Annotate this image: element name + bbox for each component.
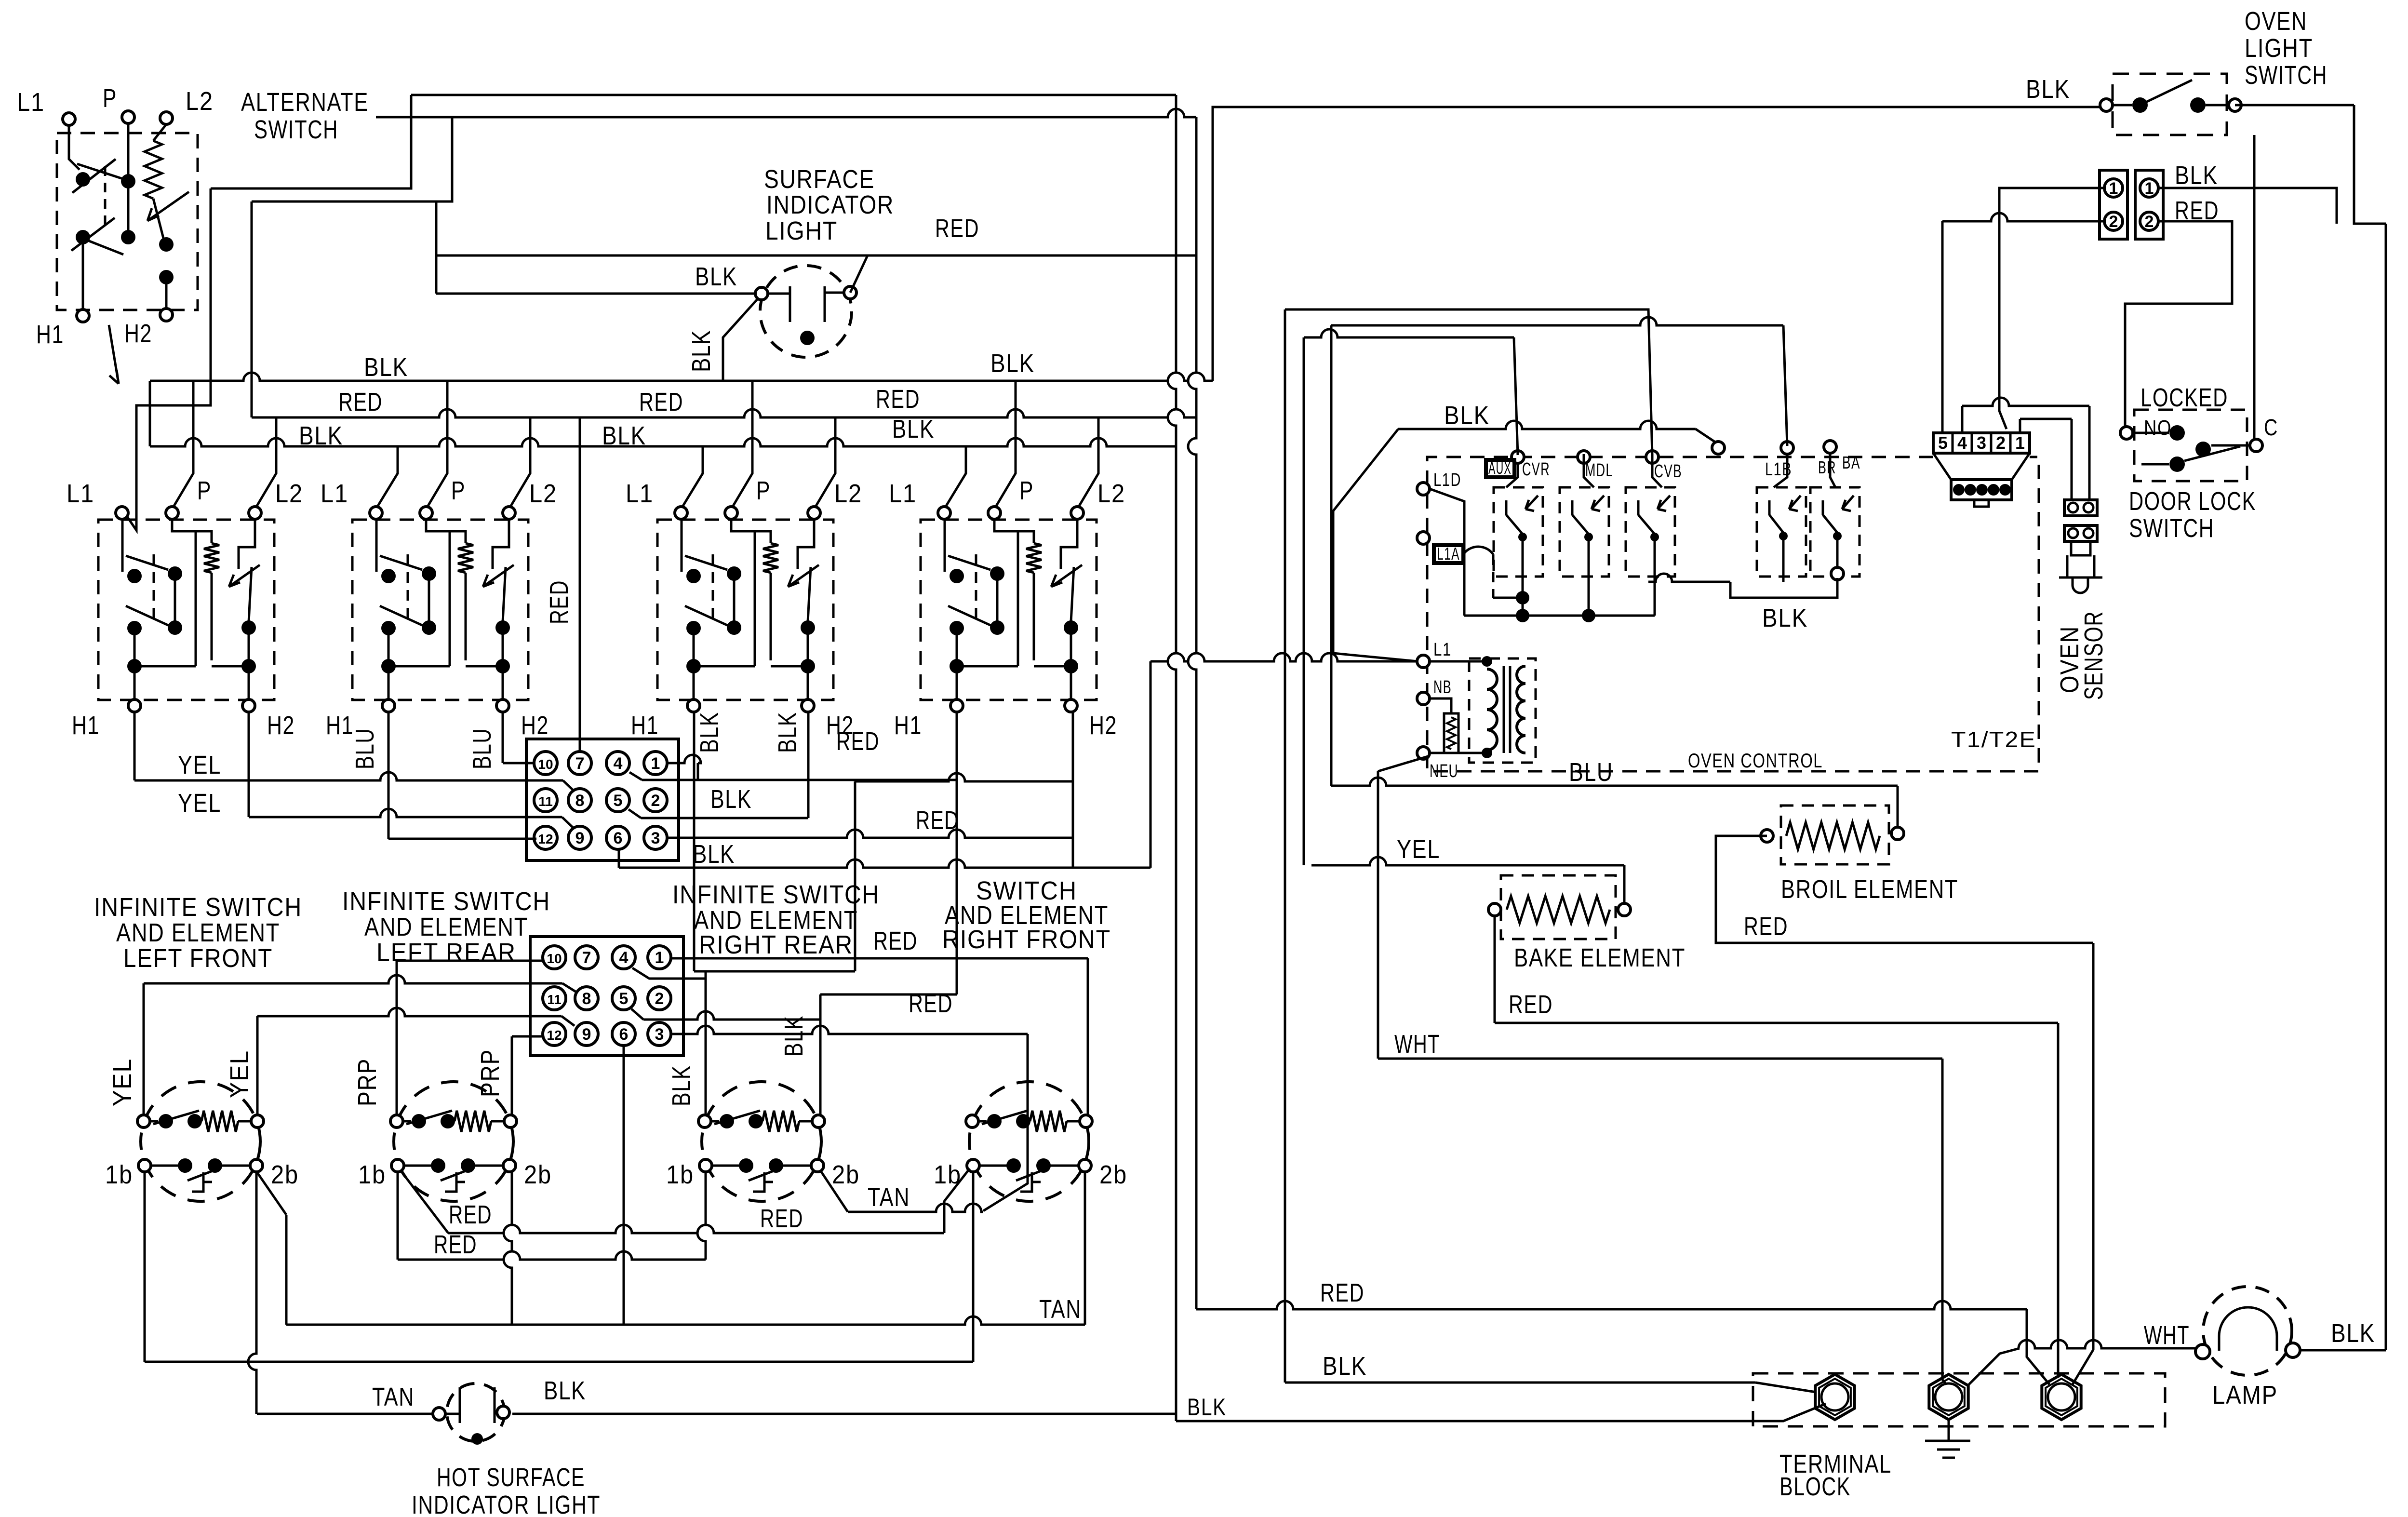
svg-text:BLK: BLK: [1444, 401, 1490, 430]
svg-text:1b: 1b: [358, 1160, 386, 1189]
svg-text:BR: BR: [1818, 457, 1836, 477]
svg-text:BLK: BLK: [602, 421, 646, 450]
svg-text:11: 11: [538, 794, 553, 809]
svg-text:RED: RED: [760, 1204, 803, 1233]
svg-text:SURFACE: SURFACE: [764, 165, 875, 194]
svg-text:BLK: BLK: [687, 330, 716, 372]
svg-text:10: 10: [547, 951, 562, 966]
svg-text:RED: RED: [1509, 990, 1553, 1019]
svg-text:L1: L1: [1433, 640, 1452, 660]
svg-text:SWITCH: SWITCH: [2245, 61, 2328, 90]
svg-text:BLK: BLK: [779, 1015, 808, 1057]
svg-text:L2: L2: [275, 479, 303, 508]
svg-text:AND ELEMENT: AND ELEMENT: [364, 913, 528, 941]
svg-text:2b: 2b: [832, 1160, 860, 1189]
svg-text:BLK: BLK: [892, 415, 935, 443]
svg-text:LIGHT: LIGHT: [2245, 34, 2313, 63]
svg-text:DOOR LOCK: DOOR LOCK: [2129, 487, 2256, 516]
svg-text:H1: H1: [631, 711, 659, 740]
svg-text:TAN: TAN: [372, 1383, 415, 1411]
svg-text:L1: L1: [17, 88, 45, 117]
svg-text:2: 2: [1996, 433, 2006, 453]
svg-text:10: 10: [538, 757, 553, 772]
svg-text:YEL: YEL: [108, 1058, 137, 1106]
svg-text:6: 6: [619, 1025, 629, 1044]
svg-text:8: 8: [575, 792, 585, 810]
svg-text:CVR: CVR: [1522, 459, 1550, 480]
svg-text:LAMP: LAMP: [2212, 1381, 2278, 1410]
svg-text:L2: L2: [529, 479, 557, 508]
svg-text:YEL: YEL: [1397, 835, 1440, 864]
svg-text:3: 3: [651, 829, 660, 847]
svg-text:BLK: BLK: [773, 712, 802, 753]
svg-text:RED: RED: [434, 1230, 477, 1259]
svg-text:BLK: BLK: [2026, 75, 2070, 104]
svg-text:4: 4: [614, 754, 623, 773]
svg-text:RED: RED: [449, 1200, 492, 1229]
svg-text:BLK: BLK: [693, 840, 735, 869]
svg-text:BLK: BLK: [710, 785, 752, 814]
svg-text:RIGHT REAR: RIGHT REAR: [699, 930, 853, 959]
svg-text:BLK: BLK: [1323, 1352, 1367, 1381]
svg-text:H1: H1: [894, 711, 922, 740]
svg-text:5: 5: [1938, 433, 1948, 453]
svg-text:H2: H2: [521, 711, 549, 740]
svg-text:L2: L2: [1097, 479, 1125, 508]
svg-text:RED: RED: [916, 806, 959, 835]
svg-text:RED: RED: [338, 388, 383, 416]
svg-text:7: 7: [575, 754, 585, 773]
svg-text:BLU: BLU: [350, 728, 379, 769]
svg-text:INDICATOR: INDICATOR: [766, 190, 894, 219]
svg-text:OVEN CONTROL: OVEN CONTROL: [1688, 749, 1823, 772]
svg-text:SWITCH: SWITCH: [254, 115, 338, 144]
svg-text:YEL: YEL: [178, 751, 221, 779]
svg-text:RIGHT FRONT: RIGHT FRONT: [942, 925, 1111, 954]
svg-text:P: P: [103, 84, 117, 113]
svg-text:LOCKED: LOCKED: [2140, 383, 2228, 412]
svg-text:BLK: BLK: [1762, 604, 1808, 632]
svg-text:RED: RED: [1320, 1278, 1365, 1307]
svg-text:BA: BA: [1842, 453, 1860, 472]
svg-text:BLK: BLK: [2331, 1319, 2375, 1348]
svg-text:L1: L1: [67, 479, 94, 508]
svg-text:L1: L1: [889, 479, 917, 508]
svg-text:P: P: [756, 476, 771, 505]
svg-text:4: 4: [1957, 433, 1967, 453]
svg-text:YEL: YEL: [225, 1050, 254, 1098]
svg-text:RED: RED: [935, 214, 979, 243]
svg-text:12: 12: [547, 1028, 562, 1043]
svg-text:BLK: BLK: [1187, 1394, 1227, 1421]
svg-text:INFINITE SWITCH: INFINITE SWITCH: [672, 880, 880, 909]
svg-text:1: 1: [655, 949, 664, 967]
svg-text:RED: RED: [876, 385, 920, 414]
svg-text:OVEN: OVEN: [2245, 7, 2307, 36]
svg-text:BLK: BLK: [695, 262, 737, 291]
svg-text:BLK: BLK: [2175, 161, 2218, 190]
svg-text:ALTERNATE: ALTERNATE: [241, 88, 369, 117]
svg-text:TAN: TAN: [1039, 1295, 1082, 1324]
svg-text:P: P: [1019, 476, 1034, 505]
svg-text:3: 3: [1977, 433, 1986, 453]
svg-text:2b: 2b: [1099, 1160, 1127, 1189]
svg-text:BLK: BLK: [364, 353, 408, 382]
svg-text:INFINITE SWITCH: INFINITE SWITCH: [342, 887, 550, 916]
svg-text:BLU: BLU: [1569, 758, 1613, 787]
svg-text:CVB: CVB: [1654, 461, 1682, 482]
svg-text:7: 7: [582, 949, 591, 967]
svg-text:TAN: TAN: [868, 1183, 910, 1212]
svg-text:RED: RED: [836, 727, 880, 756]
svg-text:BLK: BLK: [299, 421, 343, 450]
svg-text:1b: 1b: [666, 1160, 694, 1189]
svg-text:1b: 1b: [105, 1160, 133, 1189]
svg-text:AND ELEMENT: AND ELEMENT: [116, 918, 280, 947]
svg-text:1: 1: [651, 754, 660, 773]
svg-text:NEU: NEU: [1430, 761, 1458, 781]
svg-text:RED: RED: [909, 989, 953, 1018]
svg-text:LEFT FRONT: LEFT FRONT: [123, 944, 273, 973]
svg-text:5: 5: [614, 792, 623, 810]
svg-text:L1: L1: [626, 479, 654, 508]
svg-text:MDL: MDL: [1585, 460, 1613, 481]
svg-text:2: 2: [2109, 213, 2118, 231]
svg-text:1: 1: [2109, 179, 2118, 198]
svg-text:2b: 2b: [271, 1160, 299, 1189]
svg-text:BLOCK: BLOCK: [1779, 1472, 1851, 1501]
svg-text:2: 2: [655, 990, 664, 1008]
svg-text:4: 4: [619, 949, 629, 967]
svg-text:SWITCH: SWITCH: [2129, 514, 2214, 543]
svg-text:RED: RED: [873, 926, 918, 955]
svg-text:L1: L1: [321, 479, 348, 508]
svg-text:BROIL ELEMENT: BROIL ELEMENT: [1781, 875, 1958, 904]
svg-text:BLK: BLK: [544, 1376, 586, 1405]
svg-text:PRP: PRP: [353, 1058, 382, 1106]
svg-text:L1D: L1D: [1433, 470, 1461, 490]
svg-text:H2: H2: [1089, 711, 1117, 740]
svg-text:6: 6: [614, 829, 623, 847]
svg-text:BAKE ELEMENT: BAKE ELEMENT: [1514, 943, 1686, 972]
svg-text:L1A: L1A: [1437, 544, 1460, 564]
svg-text:PRP: PRP: [476, 1049, 505, 1097]
svg-text:9: 9: [582, 1025, 591, 1044]
svg-text:P: P: [451, 476, 466, 505]
svg-text:L2: L2: [834, 479, 862, 508]
svg-text:BLK: BLK: [667, 1065, 696, 1106]
svg-text:HOT SURFACE: HOT SURFACE: [437, 1463, 585, 1492]
svg-text:WHT: WHT: [1394, 1030, 1440, 1059]
svg-text:2: 2: [2145, 213, 2154, 231]
svg-text:H2: H2: [124, 319, 152, 348]
svg-text:11: 11: [547, 992, 562, 1007]
svg-text:BLK: BLK: [695, 712, 724, 753]
svg-text:INDICATOR LIGHT: INDICATOR LIGHT: [412, 1490, 601, 1517]
svg-text:H1: H1: [72, 711, 100, 740]
svg-text:H1: H1: [36, 320, 64, 349]
svg-text:WHT: WHT: [2144, 1321, 2190, 1350]
svg-text:H1: H1: [326, 711, 354, 740]
svg-text:NO: NO: [2144, 416, 2172, 440]
svg-text:1: 1: [2015, 433, 2025, 453]
svg-text:RED: RED: [639, 388, 683, 416]
svg-text:2b: 2b: [524, 1160, 552, 1189]
svg-text:12: 12: [538, 832, 553, 846]
svg-text:BLK: BLK: [990, 349, 1035, 378]
svg-text:L2: L2: [186, 87, 214, 116]
svg-text:RED: RED: [1744, 912, 1788, 941]
svg-text:BLU: BLU: [468, 728, 496, 769]
svg-text:9: 9: [575, 829, 585, 847]
svg-text:T1/T2E: T1/T2E: [1951, 727, 2036, 752]
svg-text:RED: RED: [545, 580, 574, 624]
svg-text:1: 1: [2145, 179, 2154, 198]
svg-text:YEL: YEL: [178, 789, 221, 818]
svg-text:P: P: [197, 476, 212, 505]
svg-text:8: 8: [582, 990, 591, 1008]
svg-text:LIGHT: LIGHT: [765, 216, 838, 245]
svg-text:INFINITE SWITCH: INFINITE SWITCH: [94, 893, 302, 922]
svg-text:NB: NB: [1433, 677, 1452, 698]
svg-text:SENSOR: SENSOR: [2079, 611, 2108, 700]
svg-text:2: 2: [651, 792, 660, 810]
svg-text:5: 5: [619, 990, 629, 1008]
svg-text:AUX: AUX: [1488, 458, 1512, 478]
svg-text:H2: H2: [267, 711, 295, 740]
svg-text:C: C: [2264, 415, 2278, 441]
svg-text:3: 3: [655, 1025, 664, 1044]
